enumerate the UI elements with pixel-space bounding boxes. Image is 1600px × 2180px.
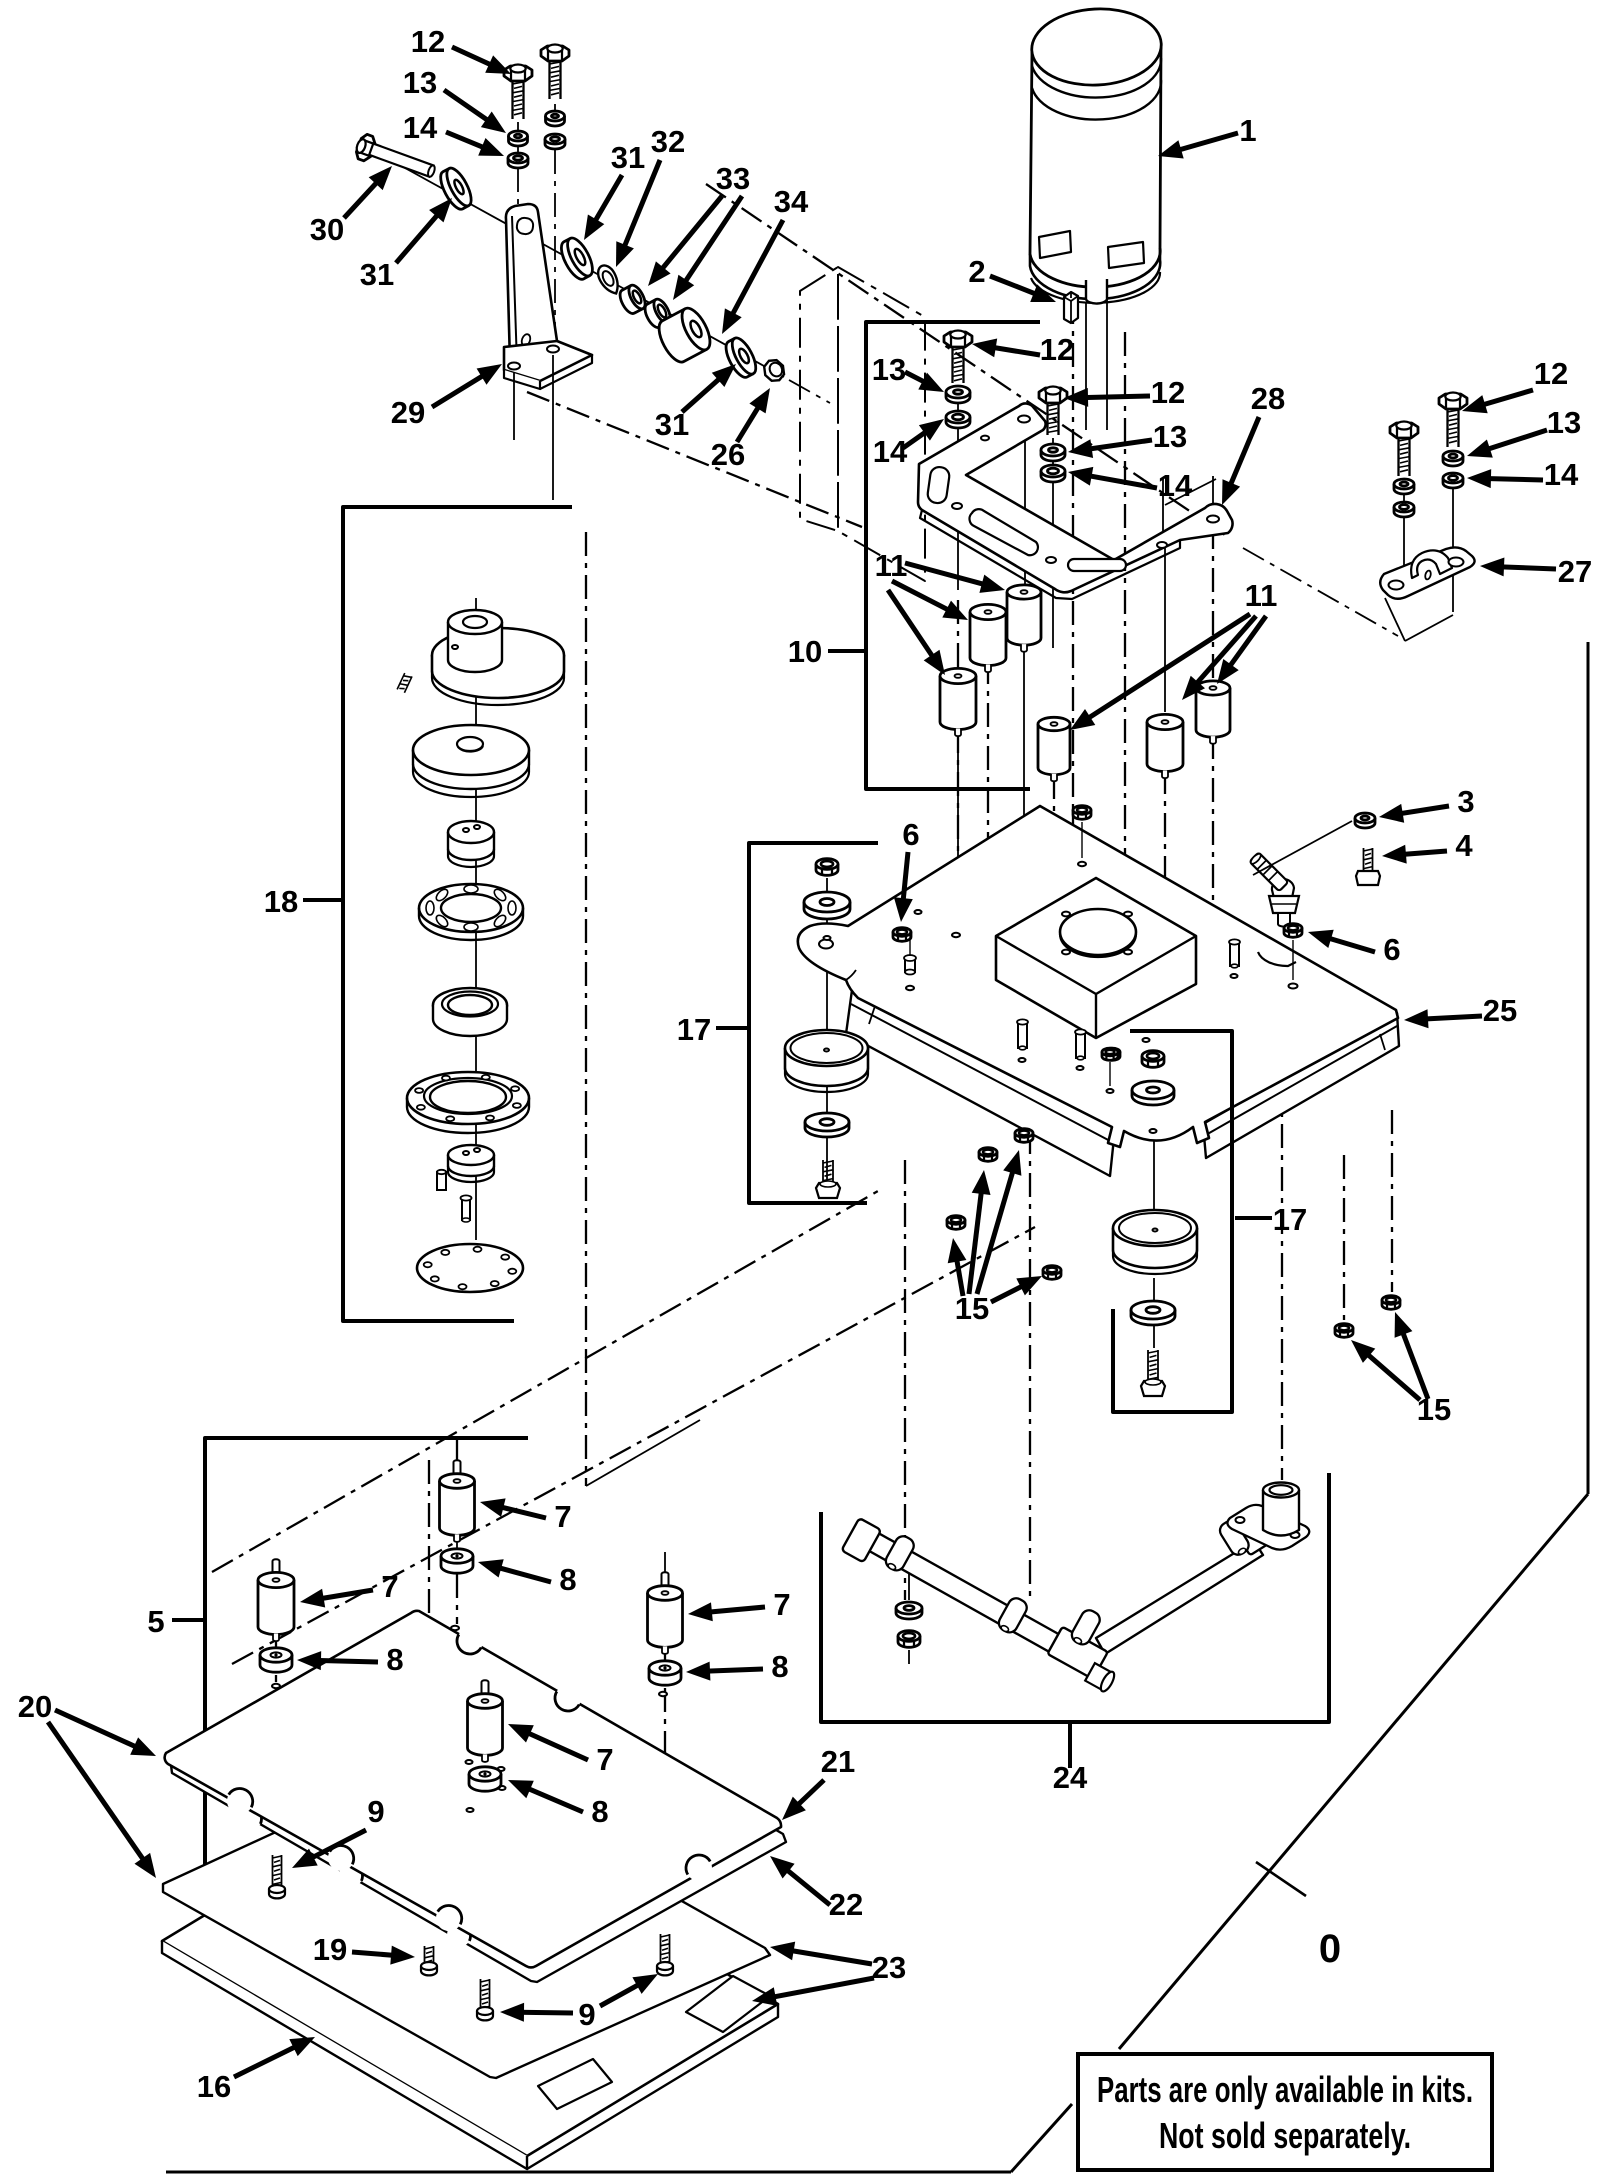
svg-text:2: 2 (968, 254, 985, 289)
svg-text:19: 19 (313, 1932, 347, 1967)
washer 14 box10 (946, 417, 970, 428)
centerline mounts7 bottom-left (456, 1438, 458, 1462)
svg-text:34: 34 (774, 184, 809, 219)
svg-text:13: 13 (403, 65, 437, 100)
screw on plate25 c (1230, 942, 1239, 966)
washer 8 d (469, 1774, 501, 1791)
lock washer 32 teardrop (594, 262, 623, 297)
mount 11 e (1147, 722, 1183, 772)
washer pair right bolt (546, 116, 565, 126)
plate 21 top (165, 1611, 781, 1968)
bracket 27 (1380, 547, 1474, 598)
centerline right bolts to bracket27 (1403, 493, 1405, 583)
plate 25 ear hole (819, 940, 833, 949)
cover disc part18 (413, 750, 529, 789)
small disc part18 (448, 1155, 494, 1176)
bracket 29 foot lines below (513, 372, 515, 440)
screw on plate25 b (1076, 1032, 1085, 1058)
screw part18 (462, 1198, 470, 1220)
tube left (855, 1525, 1062, 1654)
box 17 left outline (749, 843, 878, 1203)
svg-text:Not sold separately.: Not sold separately. (1159, 2115, 1411, 2156)
washer 13 top-left (509, 136, 528, 146)
washer 8 b (260, 1655, 292, 1672)
cover disc hole (457, 737, 483, 751)
washer 14 top-left (508, 158, 528, 168)
elbow fitting (1272, 879, 1294, 898)
washer 13 box10 (946, 392, 970, 403)
svg-text:8: 8 (771, 1649, 788, 1684)
svg-text:10: 10 (788, 634, 822, 669)
centerline canister right (1124, 332, 1126, 903)
screw on plate25 a (1018, 1022, 1027, 1048)
svg-text:14: 14 (1158, 468, 1193, 503)
svg-text:12: 12 (411, 24, 445, 59)
washer 8 c (649, 1668, 681, 1685)
square pad hole (1060, 909, 1136, 955)
bracket 29 slot (516, 217, 534, 235)
svg-text:31: 31 (360, 257, 394, 292)
svg-text:17: 17 (1273, 1202, 1307, 1237)
washer below mount left17 (805, 1122, 849, 1137)
box 18 outline (343, 507, 572, 1321)
svg-text:23: 23 (872, 1950, 906, 1985)
pad 23 b (538, 2059, 612, 2109)
plate 21 notch e (436, 1905, 462, 1931)
flange ring part18 (407, 1072, 529, 1124)
svg-text:7: 7 (773, 1587, 790, 1622)
washer 31 second (556, 234, 597, 282)
plate 10 bracket (918, 403, 1233, 592)
centerline diagonal B (232, 1227, 1035, 1664)
bushing 33 second (642, 297, 674, 330)
svg-text:20: 20 (18, 1689, 52, 1724)
plate 22 lower (171, 1626, 786, 1982)
plate 25 top surface (798, 806, 1398, 1147)
plate 10 slot bottom (1068, 559, 1126, 571)
box 10 outline (866, 322, 1040, 789)
centerline right17 mount (1153, 1068, 1155, 1222)
nut top center plate25 (1073, 810, 1091, 819)
svg-text:13: 13 (1547, 405, 1581, 440)
slotted ring part18 (419, 884, 523, 932)
svg-text:3: 3 (1457, 784, 1474, 819)
screw 9 left (272, 1855, 274, 1889)
mount 17 right big (1113, 1228, 1197, 1268)
nut 15 d (1043, 1270, 1061, 1279)
bolt 12 box10 left (944, 332, 972, 347)
svg-text:30: 30 (310, 212, 344, 247)
washer pair right a (1394, 484, 1414, 494)
bolt 12 box10 right (1039, 388, 1067, 403)
tube clamp b (996, 1595, 1030, 1635)
washer 3 (1355, 818, 1375, 828)
nut 15 b (979, 1152, 997, 1161)
washer on right17 (1132, 1090, 1174, 1105)
svg-text:4: 4 (1455, 828, 1473, 863)
plate 10 holes (1018, 416, 1030, 423)
washer 13 right (1443, 456, 1463, 466)
mount 7 b (273, 1559, 280, 1580)
svg-text:18: 18 (264, 884, 298, 919)
nut under tube (898, 1636, 920, 1647)
label 2 arrow (990, 276, 1039, 295)
pad 23 a (686, 1976, 770, 2032)
axis dashdot tail (789, 380, 830, 403)
label 1 arrow (1175, 133, 1238, 151)
canister terminal window right (1108, 242, 1144, 268)
bolt 30 (353, 132, 438, 184)
svg-text:0: 0 (1319, 1927, 1341, 1971)
washer on left17 (804, 902, 850, 919)
svg-text:11: 11 (1245, 578, 1278, 613)
svg-text:31: 31 (611, 140, 645, 175)
mount 17 left big (785, 1048, 868, 1086)
centerline axis diagonal to bracket 27 (706, 184, 1228, 537)
svg-text:14: 14 (1544, 457, 1579, 492)
svg-text:16: 16 (197, 2069, 231, 2104)
plate 10 slot left (927, 466, 951, 504)
tube socket flange (1227, 1505, 1309, 1550)
svg-text:12: 12 (1151, 375, 1185, 410)
bearing part18 (433, 988, 507, 1022)
box 5 outline (205, 1438, 528, 1903)
tube clamp c (1069, 1607, 1103, 1647)
svg-text:15: 15 (1417, 1392, 1451, 1427)
canister base (1030, 248, 1160, 299)
spacer 34 (653, 304, 715, 366)
svg-text:17: 17 (677, 1012, 711, 1047)
svg-text:25: 25 (1483, 993, 1517, 1028)
svg-text:12: 12 (1534, 356, 1568, 391)
mount 11 f (1196, 688, 1230, 737)
bushing 33 first (617, 283, 649, 316)
label 0 tick (1256, 1862, 1306, 1896)
washer 14 right (1443, 478, 1463, 488)
centerline diagonal A (212, 1191, 878, 1572)
mount 7 a (454, 1460, 461, 1481)
canister rim band arcs (1032, 58, 1161, 98)
svg-text:7: 7 (381, 1569, 398, 1604)
sheet under plates (163, 1760, 770, 2078)
centerline mounts11 to plate25 (957, 600, 959, 930)
centerline vertical x586 (585, 532, 587, 1486)
tube right (1096, 1541, 1263, 1654)
bracket 29 foot holes (508, 363, 520, 370)
plate 21 notch f (686, 1855, 712, 1881)
svg-text:13: 13 (872, 352, 906, 387)
centerline below bracket29 (527, 392, 862, 527)
tube socket cylinder (1263, 1490, 1299, 1536)
mount 11 d (1038, 724, 1070, 775)
svg-text:14: 14 (403, 110, 438, 145)
centerline left17 mount (826, 878, 828, 1180)
svg-text:15: 15 (955, 1291, 989, 1326)
centerline 15 nuts right (1343, 1155, 1345, 1320)
svg-text:7: 7 (596, 1742, 613, 1777)
tube clamp d (1217, 1518, 1252, 1558)
plate 21 notch d (328, 1845, 354, 1871)
svg-text:7: 7 (554, 1499, 571, 1534)
centerline to bracket 27 (1243, 548, 1398, 636)
svg-text:33: 33 (716, 161, 750, 196)
centerline tube nut (908, 1566, 910, 1600)
svg-text:6: 6 (902, 817, 919, 852)
ghost panel front (800, 267, 838, 531)
svg-text:6: 6 (1383, 932, 1400, 967)
washer 31 third (721, 335, 760, 381)
svg-text:1: 1 (1239, 113, 1256, 148)
nut on right17 (1142, 1056, 1164, 1067)
svg-text:11: 11 (875, 548, 908, 583)
svg-text:13: 13 (1153, 419, 1187, 454)
bracket 29 foot (504, 341, 592, 381)
plate 21 notch b (555, 1685, 581, 1711)
square pad on plate 25 (996, 878, 1196, 1038)
pulley hub (448, 622, 502, 672)
svg-text:9: 9 (578, 1997, 595, 2032)
canister body part 1 (1030, 46, 1161, 287)
svg-text:8: 8 (559, 1562, 576, 1597)
centerline plate25 to tube (904, 1160, 906, 1600)
mount 11 a (1007, 592, 1041, 645)
pulley disc part18 (432, 628, 564, 682)
bracket 27 holes (1389, 581, 1404, 590)
bolt 12 right a (1390, 423, 1418, 438)
axis line 30 to 26 (396, 163, 784, 377)
plate 25 left skirt (846, 990, 1115, 1176)
svg-text:Parts are only available in ki: Parts are only available in kits. (1097, 2069, 1473, 2110)
centerline box10 bolts (957, 385, 959, 590)
nut 26 (760, 356, 788, 385)
plate 25 right skirt end tab (1380, 1034, 1385, 1050)
washer 13 box10 right (1041, 450, 1065, 461)
plate 25 elbow cutout (1258, 952, 1296, 966)
nut on left17 (816, 864, 838, 875)
drawing border right vertical (1587, 642, 1590, 1494)
svg-text:28: 28 (1251, 381, 1285, 416)
svg-text:12: 12 (1040, 332, 1074, 367)
screw below nut6 left (905, 958, 915, 972)
mount 11 c (940, 676, 976, 730)
tube coupler right (1232, 1513, 1272, 1556)
note box (1078, 2054, 1492, 2170)
tube left cap (841, 1518, 881, 1562)
small hub part18 (448, 832, 494, 860)
canister top ellipse (1030, 6, 1163, 89)
key part 2 (1064, 292, 1078, 323)
nut 15 right a (1335, 1328, 1353, 1337)
mount 7 d (482, 1680, 489, 1701)
canister shaft (1086, 279, 1107, 304)
svg-text:14: 14 (873, 434, 908, 469)
washer 8 a (441, 1556, 473, 1573)
tube T junction (1047, 1627, 1108, 1679)
bolt below left17 (822, 1160, 824, 1188)
plate 25 left skirt end tab (869, 1006, 875, 1024)
drawing border diagonal to note box (1011, 2104, 1072, 2172)
mount 11 b (970, 612, 1006, 666)
screw 9 center (480, 1979, 482, 2011)
nut 6 left (893, 932, 911, 941)
centerline canister left (1072, 300, 1074, 900)
nut small on plate25 (1104, 1052, 1120, 1060)
svg-text:27: 27 (1558, 554, 1592, 589)
plate 21 hole dots (451, 1626, 459, 1630)
washer below mount right17 (1131, 1310, 1175, 1325)
svg-text:8: 8 (386, 1642, 403, 1677)
nut small left on right17 (1102, 1052, 1118, 1060)
washer under tube (896, 1608, 922, 1619)
plate 21 notch c (227, 1788, 253, 1814)
washer 14 box10 right (1041, 471, 1065, 482)
bottom plate part18 (417, 1244, 523, 1292)
plate 10 slot middle (970, 509, 1038, 555)
box 17 right outline (1113, 1031, 1232, 1412)
drawing border main diagonal (1119, 1494, 1588, 2049)
ghost panel rear (838, 267, 925, 581)
svg-text:8: 8 (591, 1794, 608, 1829)
plate25 small hole dots (952, 933, 960, 937)
drawing border bottom line (166, 2171, 1011, 2174)
svg-text:26: 26 (711, 437, 745, 472)
washer 31 first (436, 165, 476, 213)
bolt 12 right b (1439, 394, 1467, 409)
box 24 outline (821, 1473, 1329, 1722)
nut 6 right (1284, 928, 1302, 937)
nut 15 right b (1382, 1300, 1400, 1309)
bracket 29 small hole (520, 333, 532, 347)
plate 21 notch a (457, 1628, 483, 1654)
dowel pin part18 (437, 1172, 446, 1190)
bracket 27 strap (1411, 550, 1452, 578)
svg-text:21: 21 (821, 1744, 855, 1779)
bolt 12 top-left (504, 66, 532, 81)
mount 7 c (662, 1572, 669, 1593)
bolt 4 (1363, 848, 1365, 876)
plate 25 right skirt (1203, 1013, 1399, 1158)
tube clamp a (883, 1533, 917, 1573)
square pad corner holes (1062, 912, 1070, 917)
centerline bracket 27 break (1385, 598, 1405, 641)
svg-text:29: 29 (391, 395, 425, 430)
bolt below right17 (1147, 1350, 1149, 1386)
svg-text:32: 32 (651, 124, 685, 159)
screw 9 right (660, 1934, 662, 1966)
nut 15 a (947, 1220, 965, 1229)
set screw part18 (397, 673, 412, 693)
screw 19 (424, 1946, 426, 1966)
svg-text:5: 5 (147, 1604, 164, 1639)
svg-text:22: 22 (829, 1887, 863, 1922)
bracket 29 plate (506, 204, 557, 362)
plate 10 thickness (920, 510, 1180, 599)
tube T stub (1085, 1662, 1117, 1693)
bolt 12 top-left second (541, 46, 569, 61)
plate 16 (162, 1789, 778, 2156)
centerline part18 stack (475, 598, 477, 1240)
nut 15 c (1015, 1133, 1033, 1142)
canister terminal window left (1039, 231, 1071, 258)
svg-text:9: 9 (367, 1794, 384, 1829)
